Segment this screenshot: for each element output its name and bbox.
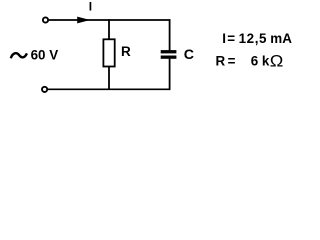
wire bottom bbox=[48, 88, 171, 90]
terminal bottom-left bbox=[42, 87, 47, 92]
wire resistor bottom lead bbox=[108, 66, 110, 90]
wire right branch top bbox=[169, 19, 171, 50]
current arrow I bbox=[77, 17, 90, 24]
svg-text:R=6 k: R=6 k bbox=[216, 53, 270, 68]
svg-text:C: C bbox=[184, 47, 194, 63]
svg-text:60 V: 60 V bbox=[31, 48, 59, 63]
wire right branch bottom bbox=[169, 59, 171, 90]
svg-text:I=12,5mA: I=12,5mA bbox=[222, 31, 292, 46]
svg-text:Ω: Ω bbox=[270, 52, 284, 70]
wire resistor top lead bbox=[108, 19, 110, 39]
wire top bbox=[49, 19, 171, 21]
resistor R bbox=[103, 39, 114, 66]
terminal top-left bbox=[43, 17, 48, 22]
svg-text:I: I bbox=[89, 0, 92, 13]
svg-text:R: R bbox=[121, 44, 131, 59]
capacitor C bbox=[161, 50, 177, 59]
AC source symbol ~ bbox=[11, 53, 27, 58]
